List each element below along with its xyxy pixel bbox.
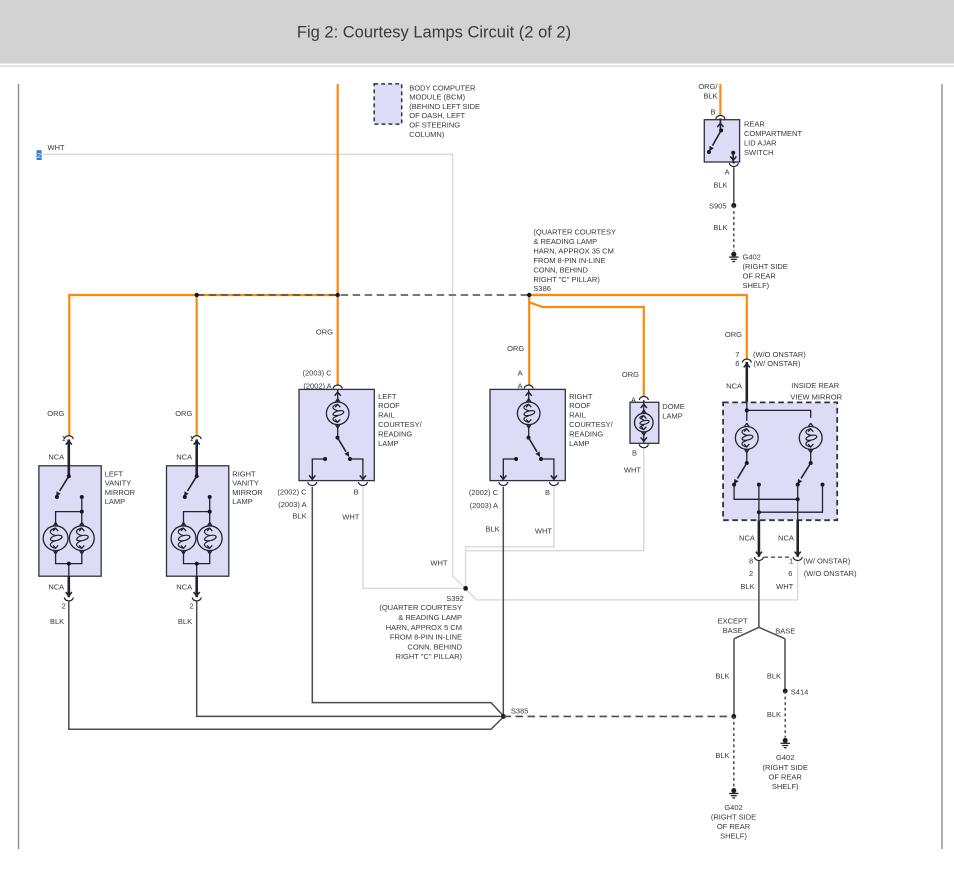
svg-text:BLK: BLK	[715, 751, 729, 760]
dome bulb	[635, 410, 654, 435]
svg-text:LAMP: LAMP	[662, 412, 682, 421]
svg-text:HARN, APPROX 5 CM: HARN, APPROX 5 CM	[386, 623, 462, 632]
svg-text:A: A	[724, 167, 729, 176]
svg-text:DOME: DOME	[662, 402, 685, 411]
svg-text:B: B	[710, 108, 715, 117]
inside rear view mirror box	[723, 402, 837, 520]
svg-text:RIGHT "C" PILLAR): RIGHT "C" PILLAR)	[396, 652, 463, 661]
svg-text:OF DASH, LEFT: OF DASH, LEFT	[409, 111, 465, 120]
page right border	[941, 84, 943, 849]
svg-text:BLK: BLK	[486, 525, 500, 534]
svg-text:ORG/: ORG/	[698, 82, 718, 91]
svg-text:CONN, BEHIND: CONN, BEHIND	[533, 265, 588, 274]
wire NCA bottom left vanity mirror lamp	[68, 576, 71, 597]
svg-text:LAMP: LAMP	[232, 497, 252, 506]
connector mirror pin 8/2	[754, 557, 763, 561]
svg-text:CONN, BEHIND: CONN, BEHIND	[407, 642, 462, 651]
wire NCA mirror top	[745, 362, 748, 402]
svg-text:(2003) C: (2003) C	[303, 368, 333, 377]
right roof rail courtesy/reading lamp box	[490, 389, 565, 480]
svg-text:ROOF: ROOF	[569, 401, 591, 410]
mirror internal run A	[734, 485, 798, 500]
svg-text:NCA: NCA	[176, 452, 192, 461]
wire ORG S386 to dome lamp	[529, 302, 644, 396]
mirror bulb right	[799, 423, 822, 453]
svg-text:(QUARTER COURTESY: (QUARTER COURTESY	[533, 228, 616, 237]
left roof rail courtesy/reading lamp box	[299, 389, 374, 480]
connector lid switch pin B	[716, 115, 725, 119]
splice S392	[463, 586, 468, 591]
svg-text:2: 2	[37, 151, 41, 160]
rear compartment lid ajar switch box	[704, 120, 739, 162]
wire NCA top right vanity mirror lamp	[195, 439, 198, 476]
mirror pin column left	[758, 485, 760, 521]
dome lamp wire in	[643, 400, 645, 413]
svg-text:COURTESY/: COURTESY/	[378, 420, 423, 429]
lid switch blade	[713, 130, 722, 145]
svg-text:WHT: WHT	[535, 526, 552, 535]
svg-text:ORG: ORG	[622, 370, 639, 379]
svg-text:VANITY: VANITY	[232, 479, 259, 488]
wire WHT from BCM to S392	[43, 154, 466, 588]
svg-text:G402: G402	[743, 252, 761, 261]
svg-text:(QUARTER COURTESY: (QUARTER COURTESY	[379, 603, 462, 612]
right vanity mirror lamp bulb right	[197, 522, 222, 554]
svg-text:REAR: REAR	[744, 119, 765, 128]
left vanity mirror lamp bulb right	[69, 522, 94, 554]
svg-text:COLUMN): COLUMN)	[409, 130, 445, 139]
svg-text:S414: S414	[791, 687, 809, 696]
svg-text:B: B	[545, 488, 550, 497]
svg-text:RIGHT "C" PILLAR): RIGHT "C" PILLAR)	[533, 275, 600, 284]
wire ORG bus to vanity lamps	[69, 295, 337, 435]
svg-text:1: 1	[62, 434, 66, 443]
ground G402 bottom right	[781, 739, 790, 748]
svg-text:Fig 2: Courtesy Lamps Circuit: Fig 2: Courtesy Lamps Circuit (2 of 2)	[297, 24, 571, 42]
svg-text:LEFT: LEFT	[105, 469, 124, 478]
mirror internal run B	[759, 485, 823, 513]
svg-text:(W/O ONSTAR): (W/O ONSTAR)	[753, 350, 806, 359]
mirror switch right	[810, 449, 812, 463]
svg-text:BLK: BLK	[292, 511, 306, 520]
svg-text:S905: S905	[709, 201, 727, 210]
wire BLK lid switch to S905	[733, 167, 735, 205]
wire pin A stub	[732, 162, 735, 163]
svg-text:VIEW MIRROR: VIEW MIRROR	[790, 392, 842, 401]
wire BLK left roof to S385	[312, 487, 503, 716]
wire NCA mirror bottom left	[758, 520, 761, 557]
connector dome pin A	[639, 396, 648, 400]
wire ORG/BLK to lid switch	[719, 84, 721, 115]
wire BLK right vanity to S385	[197, 601, 504, 716]
left vanity mirror lamp box	[39, 466, 101, 576]
svg-text:(2002) C: (2002) C	[277, 488, 307, 497]
wire ORG S386 to right roof lamp	[528, 295, 530, 385]
svg-text:RAIL: RAIL	[378, 411, 395, 420]
mirror switch left	[746, 449, 748, 463]
svg-text:BLK: BLK	[767, 710, 781, 719]
connector bottom right right roof rail courtesy/reading lamp	[549, 482, 558, 486]
svg-text:NCA: NCA	[778, 533, 794, 542]
svg-text:LAMP: LAMP	[378, 439, 398, 448]
dome wire out	[643, 432, 645, 443]
right vanity mirror lamp switch	[195, 474, 199, 478]
wire NCA top left vanity mirror lamp	[68, 439, 71, 476]
svg-text:SWITCH: SWITCH	[744, 148, 774, 157]
svg-text:(W/ ONSTAR): (W/ ONSTAR)	[754, 359, 801, 368]
svg-text:G402: G402	[724, 803, 742, 812]
svg-text:(2003) A: (2003) A	[470, 501, 498, 510]
ground G402 top right	[729, 252, 738, 261]
wire WHT dome to S392	[466, 449, 644, 551]
svg-text:READING: READING	[378, 429, 412, 438]
svg-text:VANITY: VANITY	[105, 479, 132, 488]
wire ORG S386 to mirror	[529, 295, 747, 359]
svg-text:(2003) A: (2003) A	[278, 500, 306, 509]
svg-text:(RIGHT SIDE: (RIGHT SIDE	[711, 812, 756, 821]
svg-text:ORG: ORG	[507, 344, 524, 353]
svg-text:A: A	[518, 368, 523, 377]
lid switch contact to pin A	[731, 151, 735, 155]
wire BLK right roof to S385	[502, 487, 504, 716]
svg-text:ORG: ORG	[47, 409, 64, 418]
svg-text:(2002) C: (2002) C	[469, 488, 499, 497]
left vanity mirror lamp lamp feed	[56, 497, 82, 526]
svg-text:NCA: NCA	[176, 582, 192, 591]
left vanity mirror lamp bulb left	[43, 522, 68, 554]
svg-text:COMPARTMENT: COMPARTMENT	[744, 129, 802, 138]
connector bottom left left roof rail courtesy/reading lamp	[308, 482, 317, 486]
svg-text:COURTESY/: COURTESY/	[569, 420, 614, 429]
svg-text:(BEHIND LEFT SIDE: (BEHIND LEFT SIDE	[409, 102, 480, 111]
junction left roof tap	[336, 293, 340, 297]
page link marker 2	[37, 150, 42, 160]
svg-text:(RIGHT SIDE: (RIGHT SIDE	[763, 763, 808, 772]
left vanity mirror lamp switch	[67, 474, 71, 478]
svg-text:WHT: WHT	[776, 582, 793, 591]
svg-text:BLK: BLK	[740, 582, 754, 591]
wire NCA bottom right vanity mirror lamp	[195, 576, 198, 597]
svg-text:1: 1	[789, 556, 793, 565]
svg-text:BLK: BLK	[767, 671, 781, 680]
svg-text:BODY COMPUTER: BODY COMPUTER	[409, 83, 476, 92]
svg-text:LEFT: LEFT	[378, 392, 397, 401]
svg-text:NCA: NCA	[48, 452, 64, 461]
mirror feed bus	[747, 402, 811, 421]
svg-text:6: 6	[735, 359, 739, 368]
svg-text:OF REAR: OF REAR	[769, 772, 803, 781]
dashed harness bus S386	[197, 294, 530, 296]
page left border	[18, 84, 20, 849]
svg-text:INSIDE REAR: INSIDE REAR	[791, 381, 840, 390]
left roof rail courtesy/reading lamp bulb	[326, 399, 349, 428]
svg-text:BLK: BLK	[703, 91, 717, 100]
svg-text:OF STEERING: OF STEERING	[409, 121, 460, 130]
ground G402 bottom left	[729, 789, 738, 798]
svg-text:SHELF): SHELF)	[743, 281, 770, 290]
splice S386	[527, 293, 531, 297]
connector pin 2 right vanity mirror lamp	[192, 597, 201, 601]
svg-text:(W/ ONSTAR): (W/ ONSTAR)	[803, 556, 850, 565]
svg-text:BLK: BLK	[713, 223, 727, 232]
mirror pin column right	[797, 485, 799, 521]
wire BLK except-base branch	[733, 639, 735, 717]
svg-text:1: 1	[190, 434, 194, 443]
svg-text:6: 6	[788, 569, 792, 578]
svg-text:FROM 8-PIN IN-LINE: FROM 8-PIN IN-LINE	[390, 633, 462, 642]
svg-text:BLK: BLK	[178, 617, 192, 626]
right vanity mirror lamp bulb left	[171, 522, 196, 554]
dashed BLK to ground G402 left	[733, 716, 735, 787]
wire ORG BCM vertical	[337, 84, 339, 385]
left roof rail courtesy/reading lamp contact runs	[312, 459, 363, 481]
svg-text:LAMP: LAMP	[105, 497, 125, 506]
svg-text:8: 8	[749, 556, 753, 565]
splice S414	[783, 689, 788, 694]
svg-text:S386: S386	[533, 284, 551, 293]
svg-text:2: 2	[62, 602, 66, 611]
svg-text:ORG: ORG	[316, 328, 333, 337]
right roof rail courtesy/reading lamp bulb	[517, 399, 540, 428]
svg-text:MIRROR: MIRROR	[105, 488, 136, 497]
svg-text:OF REAR: OF REAR	[743, 271, 777, 280]
svg-text:(W/O ONSTAR): (W/O ONSTAR)	[804, 569, 857, 578]
svg-text:LID AJAR: LID AJAR	[744, 138, 777, 147]
wire BLK dashed S905 to ground	[733, 206, 735, 252]
connector top left roof rail courtesy/reading lamp	[333, 385, 342, 389]
svg-text:G402: G402	[776, 753, 794, 762]
dome lamp box	[630, 402, 659, 443]
svg-text:HARN, APPROX 35 CM: HARN, APPROX 35 CM	[533, 246, 613, 255]
mirror bulb left	[735, 423, 758, 453]
mirror terminal 4	[821, 483, 825, 487]
svg-text:2: 2	[749, 569, 753, 578]
connector bottom left right roof rail courtesy/reading lamp	[499, 482, 508, 486]
svg-text:SHELF): SHELF)	[720, 832, 747, 841]
right vanity mirror lamp lamp feed	[184, 497, 210, 526]
svg-text:EXCEPT: EXCEPT	[718, 616, 748, 625]
svg-text:LAMP: LAMP	[569, 439, 589, 448]
svg-text:S392: S392	[446, 594, 464, 603]
svg-text:7: 7	[735, 350, 739, 359]
svg-text:RIGHT: RIGHT	[232, 469, 256, 478]
wire pin B stub	[719, 118, 722, 120]
svg-text:& READING LAMP: & READING LAMP	[533, 237, 597, 246]
junction G402 left	[731, 714, 736, 719]
connector pin 2 left vanity mirror lamp	[64, 597, 73, 601]
mirror terminal 2	[757, 483, 761, 487]
right vanity mirror lamp bottom bus	[184, 551, 210, 577]
svg-text:ROOF: ROOF	[378, 401, 400, 410]
wire WHT right roof to S392	[466, 487, 554, 588]
svg-text:& READING LAMP: & READING LAMP	[398, 613, 462, 622]
svg-text:NCA: NCA	[726, 381, 742, 390]
right roof rail courtesy/reading lamp wire in	[528, 389, 530, 401]
connector lid switch pin A	[729, 163, 738, 167]
wire WHT S392 to mirror	[466, 561, 798, 600]
svg-text:ORG: ORG	[175, 409, 192, 418]
dashed BLK S414 to ground	[784, 691, 786, 738]
dashed BLK S385 to G402 junction	[504, 715, 734, 717]
svg-text:READING: READING	[569, 429, 603, 438]
junction right vanity tap	[195, 293, 199, 297]
svg-text:MIRROR: MIRROR	[232, 488, 263, 497]
connector pin 1 right vanity mirror lamp	[192, 436, 201, 440]
wire BLK mirror to split	[758, 561, 760, 627]
svg-text:NCA: NCA	[48, 582, 64, 591]
header underline	[0, 65, 954, 67]
svg-text:SHELF): SHELF)	[772, 782, 799, 791]
svg-text:BASE: BASE	[723, 626, 743, 635]
svg-text:WHT: WHT	[48, 143, 65, 152]
right vanity mirror lamp box	[167, 466, 229, 576]
left roof rail courtesy/reading lamp switch	[337, 425, 339, 438]
splice S385	[501, 714, 506, 719]
svg-text:BLK: BLK	[715, 671, 729, 680]
right roof rail courtesy/reading lamp switch	[528, 425, 530, 438]
svg-text:MODULE (BCM): MODULE (BCM)	[409, 93, 465, 102]
wire BLK left vanity to S385	[69, 601, 504, 729]
svg-text:B: B	[354, 488, 359, 497]
splice S905	[731, 203, 736, 208]
header bar	[0, 0, 954, 64]
connector dome pin B	[639, 444, 648, 448]
left vanity mirror lamp bottom bus	[56, 551, 82, 577]
svg-text:2: 2	[190, 602, 194, 611]
connector mirror pin 7/6	[742, 359, 751, 363]
connector mirror pin 1/6	[793, 557, 802, 561]
svg-text:ORG: ORG	[725, 330, 742, 339]
wire NCA mirror bottom right	[796, 520, 799, 557]
svg-text:S385: S385	[511, 706, 529, 715]
svg-text:BLK: BLK	[713, 181, 727, 190]
body computer module BCM box	[374, 84, 402, 124]
mirror inline connector dashed	[764, 556, 792, 558]
split chevron except-base/base	[734, 627, 785, 639]
svg-text:WHT: WHT	[430, 558, 447, 567]
svg-text:RIGHT: RIGHT	[569, 392, 593, 401]
connector bottom right left roof rail courtesy/reading lamp	[358, 482, 367, 486]
right roof rail courtesy/reading lamp contact runs	[503, 459, 554, 481]
wire WHT left roof to S392	[363, 487, 462, 588]
connector pin 1 left vanity mirror lamp	[64, 436, 73, 440]
lid switch internal wire in	[719, 120, 721, 130]
svg-text:OF REAR: OF REAR	[717, 822, 751, 831]
svg-text:B: B	[632, 449, 637, 458]
left roof rail courtesy/reading lamp wire in	[337, 389, 339, 401]
svg-text:NCA: NCA	[739, 533, 755, 542]
svg-text:(RIGHT SIDE: (RIGHT SIDE	[743, 262, 788, 271]
svg-text:RAIL: RAIL	[569, 411, 586, 420]
svg-text:FROM 8-PIN IN-LINE: FROM 8-PIN IN-LINE	[533, 256, 605, 265]
svg-text:BASE: BASE	[775, 626, 795, 635]
svg-text:BLK: BLK	[50, 617, 64, 626]
connector top right roof rail courtesy/reading lamp	[524, 385, 533, 389]
svg-text:WHT: WHT	[624, 465, 641, 474]
wire ORG right vanity drop	[196, 295, 198, 435]
wire BLK base branch	[784, 639, 786, 691]
svg-text:WHT: WHT	[342, 513, 359, 522]
